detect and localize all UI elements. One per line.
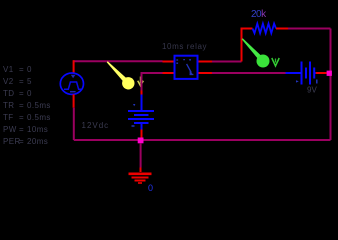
- relay U1 label: [162, 42, 207, 51]
- probe P2 lever (green): [242, 38, 270, 67]
- battery V3 value label: [307, 86, 317, 95]
- wire: pulse source bottom pin stub: [73, 94, 75, 107]
- wire: relay coil- to battery V2 (vertical): [141, 72, 143, 91]
- wire: vertical up to resistor (red): [241, 29, 243, 62]
- ground stub: [140, 168, 142, 173]
- battery V3 (9V horizontal): [286, 62, 317, 85]
- svg-text:10ms relay: 10ms relay: [162, 42, 207, 51]
- relay U1 body: [175, 56, 198, 79]
- battery V2 (12Vdc vertical): [128, 91, 154, 130]
- battery V2 value label: [82, 121, 110, 130]
- svg-text:20k: 20k: [251, 9, 267, 20]
- wire: left rail down to bottom rail: [73, 108, 75, 140]
- svg-text:9V: 9V: [307, 86, 317, 95]
- probe P2 arrow marker V: [272, 58, 279, 66]
- relay U1 contact bottom pin stub: [199, 72, 213, 74]
- wire: top of left loop (pulse source to relay coil +): [74, 60, 163, 62]
- ground (0): [129, 174, 152, 183]
- battery V2 bottom lead: [141, 130, 143, 139]
- ground node label 0: [148, 183, 153, 193]
- junction dot (battery V3 / right rail): [327, 71, 332, 76]
- relay U1 coil+ pin stub: [163, 61, 174, 63]
- junction dot (battery V2 / bottom rail / ground): [138, 138, 144, 144]
- wire: top rail to right rail: [288, 28, 331, 30]
- svg-text:12Vdc: 12Vdc: [82, 121, 110, 130]
- svg-text:TF=0.5ms: TF=0.5ms: [3, 113, 51, 122]
- probe P1 arrow marker V: [138, 77, 144, 86]
- pulse source parameter list: [3, 65, 51, 146]
- pulse source V1 (circle): [60, 73, 83, 94]
- battery V3 right lead: [316, 72, 327, 74]
- wire: right rail: [330, 29, 332, 141]
- wire: relay contact bottom to battery V3: [212, 72, 286, 74]
- resistor R1 value label 20k: [251, 9, 267, 20]
- wire: relay coil- to battery V2 (horizontal): [142, 72, 163, 74]
- resistor R1 left lead: [241, 28, 253, 30]
- relay U1 contact top pin stub: [199, 61, 213, 63]
- wire: junction to ground: [140, 143, 142, 167]
- relay U1 coil- pin stub: [163, 72, 174, 74]
- svg-text:TR=0.5ms: TR=0.5ms: [3, 101, 51, 110]
- wire: bottom rail: [74, 139, 331, 141]
- wire: relay contact to resistor corner: [212, 61, 242, 63]
- resistor R1 (20k) zigzag: [253, 24, 277, 34]
- wire: pulse source top pin stub: [73, 60, 75, 73]
- svg-text:0: 0: [148, 183, 153, 193]
- probe P1 lever (yellow): [107, 61, 135, 89]
- resistor R1 right lead: [276, 28, 288, 30]
